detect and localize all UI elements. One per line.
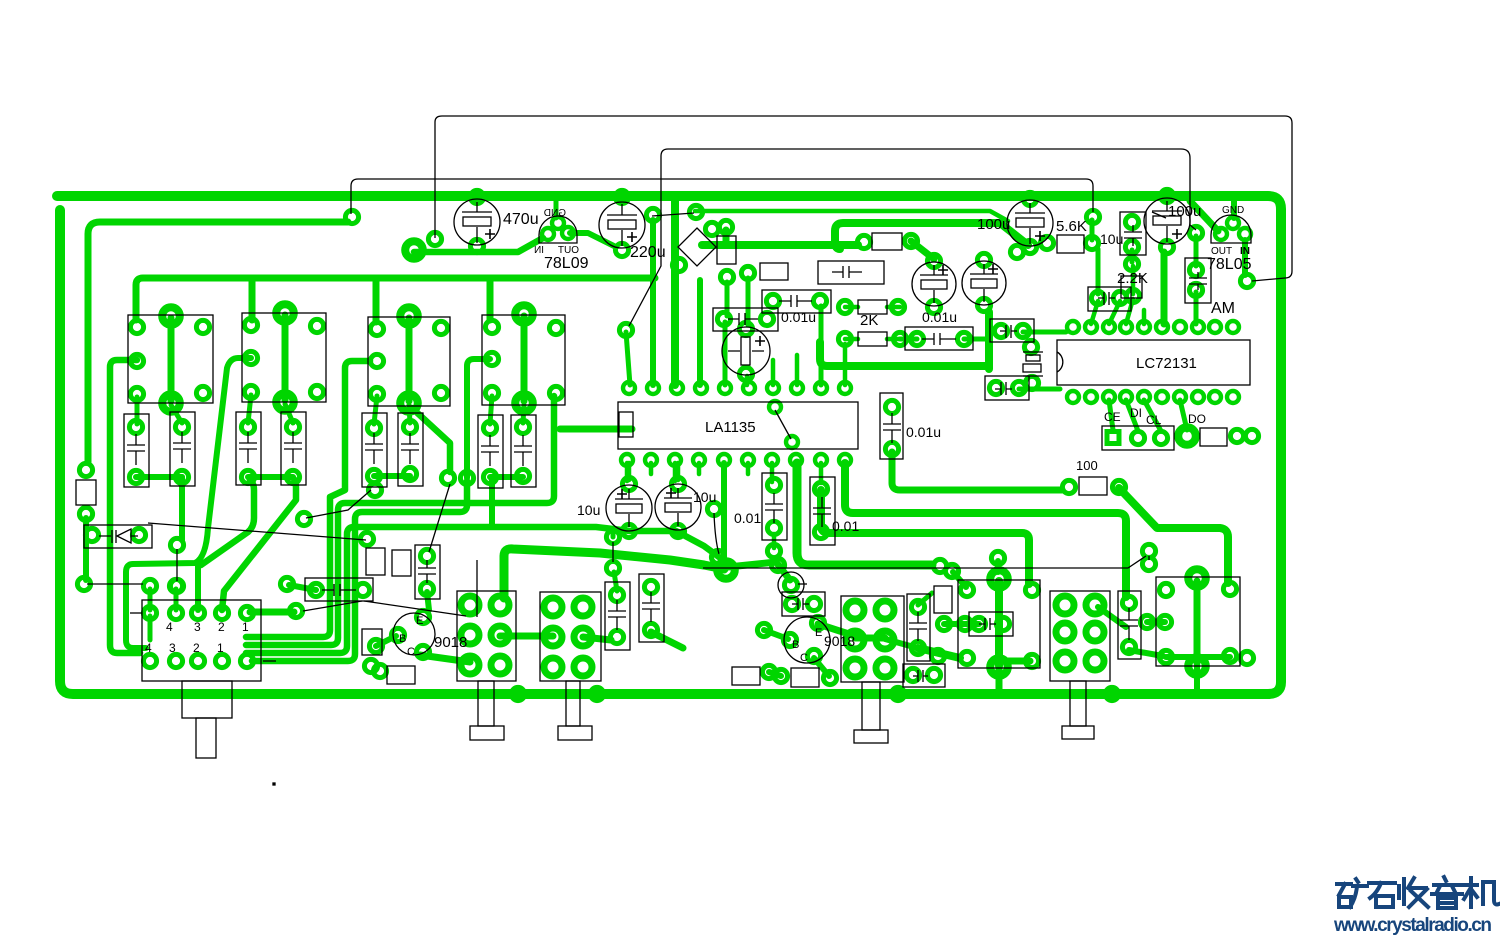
transformer can4 outline (482, 315, 565, 405)
svg-text:1: 1 (242, 620, 249, 634)
wire can2 stubs (248, 395, 251, 423)
svg-text:DO: DO (1188, 412, 1206, 426)
capacitor I outline (880, 393, 903, 459)
svg-text:10u: 10u (693, 489, 716, 505)
capacitor F outline (912, 262, 956, 306)
wire left net (87, 583, 143, 585)
wire x653 long vertical (650, 220, 656, 385)
wire T4 BL to border diagonal (918, 648, 960, 658)
svg-text:CL: CL (1146, 413, 1162, 427)
wire can4 drop (487, 278, 494, 320)
wire cap H links (900, 337, 917, 342)
wire x724 vertical to pad (721, 463, 727, 567)
capacitor V outline (907, 594, 930, 661)
wire Q2 C diagonal (814, 658, 829, 676)
resistor 100 outline (1079, 477, 1107, 495)
wire mid thick y366 (820, 342, 985, 366)
transformer can3 outline (368, 317, 450, 406)
resistor 2K outlines (858, 300, 887, 314)
svg-text:www.crystalradio.cn: www.crystalradio.cn (1333, 915, 1492, 936)
wire bus to OUT diagonal (1190, 201, 1218, 231)
wire capV top diag (918, 593, 932, 605)
wire 2K pads links (845, 305, 858, 310)
wire 78L09 OUT to 220u (570, 233, 616, 247)
wire pair2 bottoms (248, 474, 293, 480)
svg-text:C: C (407, 646, 415, 658)
wire x845 stub (843, 344, 848, 385)
wire pad613 to capN stub (614, 572, 617, 591)
wire can1 inner (168, 318, 175, 401)
wire y513 long trace (845, 463, 1126, 597)
IC LC72131 outline (1057, 340, 1250, 385)
wire x675 vertical (671, 200, 679, 385)
svg-text:1: 1 (217, 641, 224, 655)
transformer T2 outline (540, 592, 601, 681)
svg-text:B: B (792, 639, 799, 651)
wire T1-T2 link (500, 633, 553, 640)
wire can3 big bottom diagonal (412, 408, 450, 472)
wire T4 left cap feed (944, 621, 979, 627)
diode outline (84, 525, 152, 548)
wire can3 stubs (374, 396, 377, 424)
mark dot (273, 783, 275, 785)
capacitor 100u2 outline (1144, 198, 1190, 244)
wire x698 vertical (697, 280, 703, 385)
node pads LC72131 rows (1062, 321, 1258, 571)
wire 470u bottom link (414, 238, 543, 252)
wire y565 trace (797, 463, 932, 565)
glyph kuang (1337, 879, 1367, 907)
regulator 78L05 outline (1211, 215, 1251, 243)
wire Q1 B feed (376, 636, 396, 646)
capacitor G outline (962, 261, 1006, 305)
capacitor A2 outline (818, 261, 884, 284)
wire T6 inner left pads link (1147, 619, 1165, 625)
wire can3 drop (373, 278, 380, 322)
svg-text:78L05: 78L05 (1207, 256, 1252, 273)
wire V1 diag (1098, 607, 1126, 627)
wire vertical x989 up (985, 312, 993, 369)
capacitor 10u outline (1120, 212, 1146, 255)
svg-text:E: E (416, 615, 423, 627)
wire wrap W1 connector to can3 ML (246, 361, 370, 637)
svg-text:9018: 9018 (434, 634, 467, 651)
transformer T5 outline (1050, 591, 1110, 681)
svg-text:0.01u: 0.01u (922, 309, 957, 325)
wire y548 trace connector to Q2 (504, 549, 724, 598)
wire bus3 horizontal with can drops (136, 278, 655, 320)
node pads top region (77, 189, 1253, 590)
transistor Q1 outline (393, 613, 435, 655)
wire diamond pad stub (723, 230, 730, 245)
wire x797 stub (795, 355, 800, 385)
wire ground border loop (57, 196, 1281, 694)
svg-text:E: E (815, 627, 822, 639)
glyph yin (1432, 877, 1462, 908)
wire capO link (651, 632, 683, 648)
resistor outlines small (366, 548, 385, 575)
wire T4 down to border (996, 668, 1003, 692)
svg-text:GND: GND (1222, 205, 1244, 216)
transformer T1 outline (457, 591, 516, 681)
svg-text:DI: DI (1130, 406, 1142, 420)
wire x749 stub E cap (746, 278, 751, 325)
crystal outline (1023, 351, 1043, 353)
capacitor E outline (722, 327, 770, 375)
capacitor B' outline (985, 376, 1029, 400)
transformer can1 outline (128, 315, 213, 403)
wire 100u2 bottom down to LC row (1161, 252, 1168, 324)
svg-text:CE: CE (1104, 410, 1121, 424)
wire capX net (429, 484, 450, 552)
wire capP left feed (289, 585, 316, 590)
wire can4 ML left down (467, 359, 490, 478)
wire wrap W3 connector to can4 ML (252, 481, 467, 661)
wire pair1 right down (179, 477, 185, 540)
capacitor O outline (639, 574, 664, 642)
wire Q2 B feed (764, 630, 788, 639)
svg-text:220u: 220u (630, 244, 666, 261)
wire AM cap column (1194, 236, 1199, 266)
wire T4 top pad stub (995, 561, 1001, 572)
capacitor N outline (605, 582, 630, 650)
svg-text:4: 4 (166, 620, 173, 634)
glyph shi (1369, 883, 1395, 907)
wire small circle tick (798, 583, 807, 585)
wire T1 Q1 link (420, 655, 470, 662)
wire outer left nested (110, 360, 140, 653)
svg-text:78L09: 78L09 (544, 255, 589, 272)
capacitor 10uK outline (655, 484, 701, 530)
wire T2 capN link (583, 637, 611, 640)
svg-text:10u: 10u (1100, 231, 1123, 247)
svg-text:C: C (800, 652, 808, 664)
capacitor 220u outline (599, 202, 645, 248)
wire 5.6K right pad up (1090, 220, 1095, 240)
svg-text:IN: IN (534, 245, 544, 256)
wire net D (364, 601, 466, 616)
wire CL stub (1144, 400, 1161, 431)
wire pad to Q2 diagonal (728, 562, 790, 580)
wire can4 inner (521, 316, 528, 401)
wire x629 stub (626, 332, 630, 385)
capacitor pair3 outlines (362, 413, 387, 487)
wire pin1 to pad right (250, 609, 294, 616)
glyph shou (1399, 878, 1428, 907)
transformer can2 outline (242, 313, 326, 402)
wire y565 to T4 TL (953, 572, 966, 587)
wire x821 vertical (819, 306, 824, 385)
wire x773 stub (771, 360, 776, 385)
capacitor pair2 outlines (236, 412, 261, 485)
wire T6 inner vertical (1194, 581, 1201, 663)
wire pad-pad link top (652, 213, 694, 216)
svg-text:2: 2 (218, 620, 225, 634)
capacitor D outline (713, 308, 778, 331)
wire V1 bottom to T6 (1129, 650, 1163, 656)
svg-text:3: 3 (169, 641, 176, 655)
capacitor H outline (905, 327, 973, 350)
wire can2 inner (282, 315, 289, 400)
svg-text:100u: 100u (1168, 203, 1201, 220)
wire net E (303, 601, 362, 611)
capacitor 470u outline (454, 199, 500, 245)
capacitor A' outline (990, 319, 1034, 342)
capacitor 100u outline (1007, 200, 1053, 246)
wire schematic outer box1 (435, 116, 1292, 281)
capacitor X outline (415, 545, 440, 599)
wire y490 trace capI to R100 (892, 452, 1062, 490)
wire cap right of LC72131 link (1023, 330, 1066, 335)
wire y533 trace from capM (821, 490, 1029, 584)
transistor Q2 outline (784, 617, 830, 663)
capacitor L outline (762, 473, 787, 540)
svg-text:0.01u: 0.01u (781, 309, 816, 325)
resistor DO outline (1200, 428, 1227, 446)
wire wrap W4 connector to pad x613 (246, 527, 719, 653)
svg-text:10u: 10u (577, 502, 600, 518)
svg-text:3: 3 (194, 620, 201, 634)
wire T6 bottom row link (1166, 654, 1230, 660)
wire black link x613 (612, 542, 614, 562)
svg-text:LA1135: LA1135 (705, 419, 756, 436)
resistor outline mid2 (872, 233, 902, 250)
wire can1 BR to connector slant (126, 358, 251, 648)
capacitor pair4 outlines (478, 415, 503, 488)
wire mid net C (306, 490, 371, 518)
wire schematic box2 (629, 149, 1196, 326)
svg-text:B: B (399, 633, 406, 645)
connector CE outline (1102, 426, 1174, 450)
wire 78L05 GND drop (1231, 200, 1237, 218)
svg-text:4: 4 (145, 641, 152, 655)
wire black stub under cap pad (176, 549, 178, 581)
wire 78L09 GND stub from bus1 (554, 196, 559, 218)
svg-text:470u: 470u (503, 211, 539, 228)
svg-text:2: 2 (193, 641, 200, 655)
wire 78L05 IN down (1242, 240, 1248, 275)
wire 2.2K to LC row stubs (1109, 301, 1120, 324)
wire connector stubs (148, 589, 153, 610)
capacitor AM outline (1185, 258, 1211, 303)
wire LA1135 inner net (775, 410, 791, 439)
wire Q2 left pads link (769, 672, 781, 676)
wire black vert x478 (476, 560, 478, 617)
wire thick y245 from diamond (702, 241, 858, 249)
transformer T4 outline (958, 580, 1040, 668)
node pads middle components (717, 253, 1038, 577)
wire pair4 bottoms (490, 474, 523, 480)
wire pair2R to pin2 diagonal (222, 479, 296, 610)
wire CE stub (1109, 400, 1113, 430)
wire pair3 bottoms (374, 473, 410, 479)
wire cap pair1 bottoms (136, 474, 182, 480)
diamond component outline (678, 228, 716, 266)
wire connector ticks (130, 612, 142, 614)
wire DI stub (1126, 400, 1138, 431)
wire pads under LA1135 stubs (625, 463, 630, 481)
svg-text:100u: 100u (977, 216, 1010, 233)
capacitor 10uJ outline (606, 485, 652, 531)
svg-text:0.01: 0.01 (734, 510, 761, 526)
resistor outline mid1 (760, 263, 788, 280)
wire long bottom net (703, 556, 1146, 568)
wire can4 stubs (490, 396, 492, 424)
wire pair2L to pin3 diagonal (201, 480, 254, 565)
wire 5.6K right pad down (1096, 249, 1101, 294)
svg-text:GND: GND (544, 208, 566, 219)
wire LA1135 left entry (600, 426, 632, 433)
svg-text:0.01: 0.01 (832, 518, 859, 534)
transformer T3 outline (841, 596, 904, 682)
rect beside diamond (717, 236, 736, 264)
wire schematic net y179 (351, 179, 1093, 214)
capacitor C outline (762, 290, 831, 313)
wire DO stub (1180, 400, 1187, 430)
wire can3 inner (406, 318, 413, 401)
regulator 78L09 outline (539, 216, 577, 243)
wire wrap W2 connector to can4 BR (246, 396, 554, 645)
wire T3 to capV (885, 639, 914, 647)
wire Q2E to T3 (818, 624, 852, 635)
IC LA1135 outline (618, 402, 858, 449)
capacitor M outline (810, 477, 835, 545)
svg-text:AM: AM (1211, 300, 1235, 317)
capacitor C17 outline (1088, 287, 1131, 311)
capacitor P outline (305, 578, 373, 601)
wire resistor to capF diagonal (911, 241, 934, 259)
wire can2 drop (249, 278, 256, 320)
svg-text:100: 100 (1076, 458, 1098, 473)
wire trace2 from pad A to left edge down to R pad (88, 222, 348, 462)
wire trace y211 (695, 211, 1008, 221)
node pads bottom region (85, 471, 1253, 700)
wire 10uJ top stub (627, 463, 632, 480)
svg-text:5.6K: 5.6K (1056, 218, 1087, 235)
svg-text:9018: 9018 (824, 633, 855, 649)
wire pair4 stub down (489, 479, 495, 524)
wire T4 inner vertical (995, 581, 1003, 666)
wire R100 to T6 diagonal (1119, 488, 1228, 583)
node pads can row (129, 304, 562, 483)
wire can1 stubs to caps (135, 397, 140, 424)
svg-text:2K: 2K (860, 312, 878, 329)
svg-text:2.2K: 2.2K (1117, 270, 1148, 287)
glyph ji (1464, 878, 1499, 907)
capacitor T4 inner outline (969, 612, 1013, 636)
wire T4 bottom right link (1006, 658, 1030, 665)
node pads LA1135 rows (621, 382, 851, 466)
wire x725 stub (725, 282, 730, 316)
wire left resistor lower segment (83, 518, 89, 580)
wire W4 branch to pad x613 (605, 528, 613, 537)
wire black K-cap net (714, 513, 719, 554)
capacitor near Q2 outline (778, 572, 804, 598)
resistor 5.6K outline (1057, 235, 1084, 253)
wire diode net (148, 523, 366, 540)
screw outlines (478, 681, 494, 726)
wire 100u2 leader (1152, 212, 1166, 218)
wire T6 big bottom to border (1194, 666, 1200, 691)
connector outline (142, 600, 261, 681)
watermark logo kuang shi shou yin ji drawn as strokes (1337, 877, 1499, 908)
capacitor pair1 outlines (124, 414, 149, 487)
svg-text:0.01u: 0.01u (906, 424, 941, 440)
wire capL bottom stub (772, 534, 777, 548)
capacitor V1 outline (1118, 591, 1141, 659)
wire connector pin3 riser (195, 566, 201, 610)
svg-text:LC72131: LC72131 (1136, 355, 1197, 372)
wire T3 mid link (855, 635, 885, 642)
transformer T6 outline (1156, 577, 1240, 666)
wire thick y223 to 100u (835, 223, 1028, 249)
wire 10u cap bottom down (1130, 250, 1135, 262)
capacitor bottom outline (903, 664, 945, 687)
resistor 2.2K outline (1121, 276, 1142, 298)
